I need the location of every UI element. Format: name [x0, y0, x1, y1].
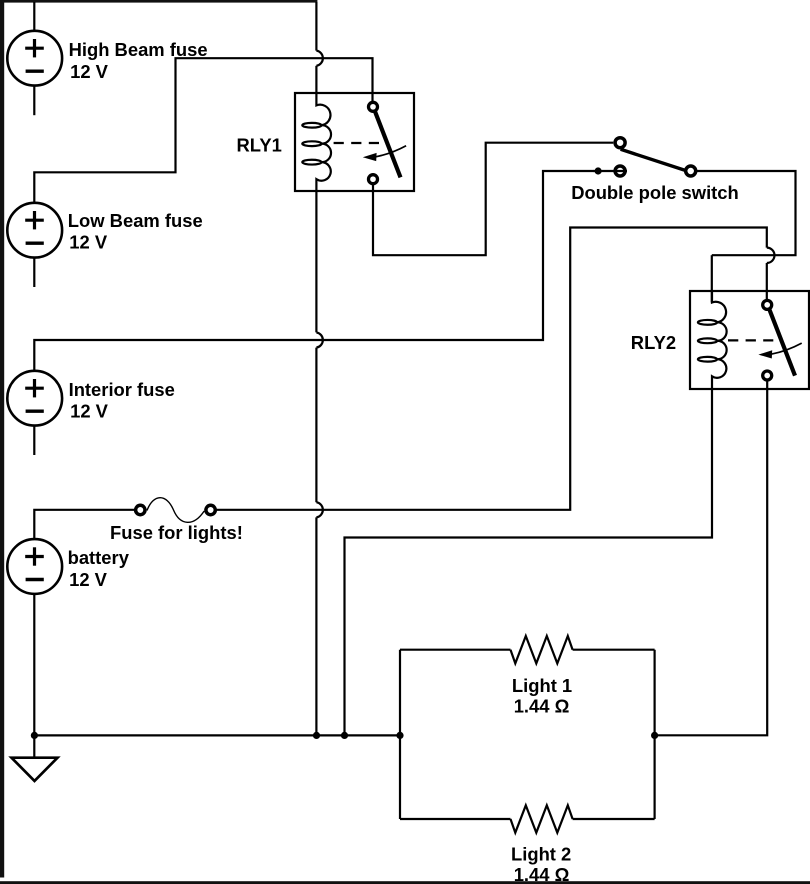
svg-text:12 V: 12 V: [69, 232, 108, 253]
label Light 2 1.44 ohm: [511, 843, 571, 884]
fuse F1 (Fuse for lights!): [136, 498, 216, 523]
relay RLY2 switch top contact: [763, 300, 772, 309]
node: pole2 feed junction dot: [595, 167, 602, 174]
wire: V4 bottom lead down to ground rail: [33, 594, 35, 736]
wire: V4 top lead up to fuse wire: [34, 510, 134, 539]
voltage source V4 battery: [7, 539, 62, 594]
relay RLY1 switch arm: [375, 112, 401, 178]
double pole switch SW1 pole1 output contact: [686, 166, 696, 176]
label V3 Interior fuse 12 V: [69, 379, 175, 422]
node: lights right junction: [651, 732, 658, 739]
label Light 1 1.44 ohm: [512, 675, 572, 717]
svg-text:Double pole switch: Double pole switch: [571, 182, 739, 203]
wire: V3 top lead up, right, up to double pole switch pole 2: [34, 171, 593, 371]
wire: RLY1 coil feed from top border down through hops to ground rail: [316, 2, 322, 735]
relay RLY1 box: [295, 93, 414, 191]
label RLY1: [237, 135, 282, 156]
svg-text:Light 2: Light 2: [511, 843, 571, 864]
relay RLY2 switch arm: [770, 310, 796, 376]
relay RLY1 arrow: [363, 146, 406, 161]
double pole switch SW1 pole1 fixed contact: [615, 138, 625, 148]
voltage source V2 Low Beam fuse: [7, 203, 62, 258]
svg-text:RLY2: RLY2: [631, 332, 676, 353]
relay RLY2 coil: [698, 291, 727, 389]
svg-text:Fuse for lights!: Fuse for lights!: [110, 522, 243, 543]
wire: RLY2 coil feed down into box: [711, 255, 713, 302]
relay RLY1 switch bottom contact: [369, 175, 378, 184]
node: RLY1 coil return on ground rail: [313, 732, 320, 739]
wire: V1 bottom stub: [33, 86, 35, 116]
node: lights left junction on ground rail: [396, 732, 403, 739]
label V1 High Beam fuse 12 V: [69, 39, 208, 82]
svg-text:12 V: 12 V: [69, 569, 108, 590]
wire: V3 bottom stub: [33, 426, 35, 455]
voltage source V1 High Beam fuse: [7, 31, 62, 86]
wire: V1 High Beam top lead to top border: [33, 2, 35, 31]
wire hop: RLY2 switch feed over coil feed wire: [767, 248, 775, 263]
label Double pole switch: [571, 182, 739, 203]
resistor Light 2: [511, 805, 573, 832]
wire: V2 bottom stub: [33, 258, 35, 287]
wire: pole2 stub through open contact: [593, 170, 627, 172]
svg-text:Low Beam fuse: Low Beam fuse: [68, 210, 203, 231]
relay RLY2 box: [690, 291, 809, 389]
svg-text:battery: battery: [68, 547, 130, 568]
wire: ground lead: [33, 735, 35, 758]
resistor Light 1: [511, 636, 573, 663]
relay RLY1 dashed link: [334, 142, 380, 144]
svg-text:12 V: 12 V: [70, 61, 109, 82]
wire: hop down to RLY2 switch top contact: [766, 263, 768, 300]
svg-text:1.44 Ω: 1.44 Ω: [514, 696, 570, 717]
wire: RLY1 switch bottom down, right, up to double pole switch pole 1: [373, 143, 613, 256]
node: RLY2 coil return on ground rail: [341, 732, 348, 739]
label V2 Low Beam fuse 12 V: [68, 210, 203, 253]
svg-text:Light 1: Light 1: [512, 675, 572, 696]
relay RLY2 arrow: [758, 343, 801, 358]
wire: V2 top lead up, right, up, right to RLY1 switch common: [34, 58, 372, 203]
label F1 Fuse for lights!: [110, 522, 243, 543]
wire: lights parallel loop: [400, 650, 655, 819]
svg-text:1.44 Ω: 1.44 Ω: [514, 864, 570, 884]
relay RLY1 coil: [302, 93, 331, 191]
wire: RLY2 switch bottom down, left to lights node: [655, 380, 768, 735]
svg-text:Interior fuse: Interior fuse: [69, 379, 175, 400]
double pole switch SW1 pole2 contact: [615, 166, 625, 176]
wire: SW1 pole1 output right, down, left to RLY2 coil feed: [696, 171, 795, 255]
relay RLY2 dashed link: [728, 339, 773, 341]
label RLY2: [631, 332, 676, 353]
wire: fuse to right, up, right to RLY2 switch feed: [216, 228, 767, 510]
label V4 battery 12 V: [68, 547, 130, 590]
svg-text:High Beam fuse: High Beam fuse: [69, 39, 208, 60]
wire: RLY2 coil bottom down, left, down to ground rail: [345, 389, 713, 735]
node: battery/ground junction: [31, 732, 38, 739]
voltage source V3 Interior fuse: [7, 371, 62, 426]
relay RLY1 switch top contact: [369, 102, 378, 111]
ground symbol: [12, 758, 58, 781]
svg-text:12 V: 12 V: [70, 401, 109, 422]
double pole switch SW1 arm: [621, 149, 686, 170]
svg-text:RLY1: RLY1: [237, 135, 282, 156]
ground rail wire: [34, 734, 400, 736]
relay RLY2 switch bottom contact: [763, 371, 772, 380]
